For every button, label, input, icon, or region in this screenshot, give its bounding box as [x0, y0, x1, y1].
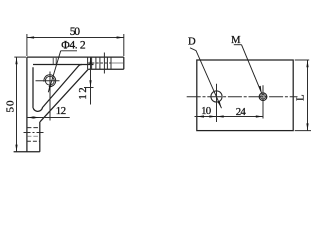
plate horizontal centerline	[187, 96, 298, 98]
svg-text:50: 50	[70, 25, 81, 38]
rib upper diagonal edge with rounded slot end	[33, 65, 82, 112]
arm end hole mid dashes	[88, 62, 111, 64]
dimension 12 bottom: left arrow	[27, 116, 34, 118]
dimension L: bottom extension line	[295, 130, 311, 132]
bracket leg left edge	[26, 57, 28, 152]
dimension 12 bottom: right arrow	[33, 116, 40, 118]
dimension 24: left arrow	[217, 115, 224, 117]
bracket arm right end	[123, 57, 125, 69]
dimension 50 left: dimension line	[16, 57, 18, 152]
dimension L: top extension line	[295, 59, 310, 61]
leg hole hidden line 2	[27, 135, 40, 137]
rib lower diagonal edge	[40, 69, 88, 122]
svg-text:Φ4. 2: Φ4. 2	[61, 39, 86, 52]
bracket leg bottom edge	[14, 151, 40, 153]
svg-text:D: D	[188, 37, 196, 48]
arm end hole hidden line 2	[91, 57, 93, 69]
hole M inner circle	[261, 94, 266, 99]
bracket top edge	[27, 56, 124, 58]
arm end hole hidden line 3	[95, 57, 97, 69]
dimension 50 left: top extension line	[14, 56, 26, 58]
hole M vertical centerline	[262, 85, 264, 118]
dimension 50 left: top arrow	[15, 57, 17, 64]
dimension L: bottom arrow	[306, 123, 308, 130]
hole C1 hidden wall bar 1	[52, 58, 54, 64]
hole M outer circle	[259, 93, 267, 101]
dimension 24: right arrow	[256, 115, 263, 117]
arm end hole vertical centerline	[103, 53, 105, 74]
dimension 12 vertical: bottom extension tick	[84, 87, 94, 89]
leg hole horizontal centerline	[24, 132, 46, 134]
bracket leg right edge	[39, 122, 41, 152]
arm end axis dash to end face	[111, 62, 124, 64]
dimension 10/24: dimension line	[195, 116, 264, 118]
label M: leader diagonal	[242, 45, 262, 93]
label M: leader shoulder	[234, 44, 242, 46]
label D: leader polyline	[190, 48, 222, 108]
svg-text:24: 24	[236, 106, 247, 118]
label phi4.2: leader arrow	[48, 85, 51, 92]
hole C1 horizontal centerline	[36, 80, 60, 82]
rib top edge line (with dim extension tick)	[33, 64, 94, 66]
svg-text:50: 50	[5, 100, 17, 113]
dimension 50 top: left arrow	[27, 36, 34, 38]
leg hole hidden line 3	[27, 140, 40, 142]
dimension 50 top: right arrow	[117, 36, 124, 38]
dimension 12 vertical: bottom arrow	[89, 80, 91, 87]
hole C1 hidden wall bar 2	[55, 58, 57, 64]
dimension 50 top: left extension line	[26, 34, 28, 56]
dimension 50 top: right extension line	[123, 34, 125, 56]
hole C1 inner circle	[45, 76, 54, 85]
label phi4.2: leader diagonal	[48, 51, 60, 93]
svg-text:L: L	[296, 94, 307, 100]
arm end hole hidden line 6	[110, 57, 112, 69]
bracket arm bottom edge	[88, 68, 124, 70]
dimension 50 top: dimension line	[27, 37, 124, 39]
label D: leader arrow	[218, 101, 222, 108]
arm end hole hidden line 1	[87, 57, 89, 69]
label M: leader arrow	[259, 86, 262, 93]
dimension 10: left arrow	[197, 115, 204, 117]
svg-text:10: 10	[201, 105, 211, 117]
svg-text:12: 12	[78, 87, 89, 99]
dimension 12 bottom: dimension line with tail	[27, 117, 70, 119]
hole D circle	[211, 91, 222, 102]
arm end hole hidden line 5	[106, 57, 108, 69]
dimension L: dimension line	[307, 60, 309, 131]
arm end hole hidden line 4	[99, 57, 101, 69]
hole C1 vertical centerline	[49, 72, 51, 121]
svg-text:12: 12	[56, 105, 66, 117]
plate outline (right view)	[197, 60, 293, 131]
hole D vertical centerline	[216, 84, 218, 122]
dimension 10: right arrow	[209, 115, 216, 117]
dimension L: top arrow	[306, 60, 308, 67]
leg hole hidden line 1	[27, 127, 40, 129]
dimension 12 vertical: dimension line	[90, 57, 92, 104]
hole C1 (phi 4.2) thread outer arc	[44, 75, 56, 87]
label phi4.2: leader shoulder	[61, 50, 77, 52]
dimension 12 vertical: top arrow	[89, 57, 91, 64]
dimension 50 left: bottom arrow	[15, 145, 17, 152]
